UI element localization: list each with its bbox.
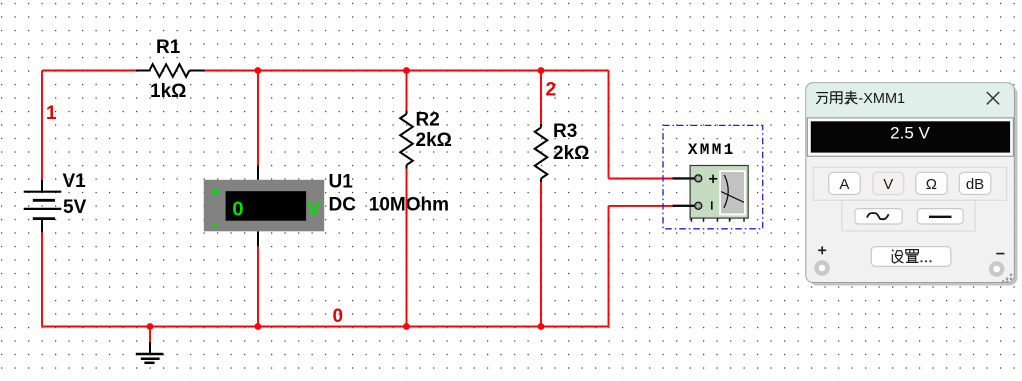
svg-text:A: A — [839, 176, 849, 193]
svg-text:2kΩ: 2kΩ — [416, 130, 452, 151]
svg-text:2.5 V: 2.5 V — [890, 123, 930, 142]
svg-text:2: 2 — [546, 80, 557, 101]
svg-text:V: V — [307, 197, 321, 220]
svg-text:5V: 5V — [63, 197, 87, 218]
svg-text:DC: DC — [329, 194, 357, 215]
svg-text:1kΩ: 1kΩ — [150, 81, 186, 102]
svg-text:V1: V1 — [63, 171, 87, 192]
svg-text:2kΩ: 2kΩ — [553, 143, 589, 164]
svg-text:dB: dB — [966, 176, 984, 193]
svg-text:10MOhm: 10MOhm — [369, 194, 449, 215]
svg-text:R1: R1 — [156, 37, 181, 58]
svg-text:0: 0 — [232, 197, 243, 220]
svg-text:V: V — [883, 176, 893, 193]
svg-text:0: 0 — [333, 306, 344, 327]
svg-text:R3: R3 — [553, 121, 577, 142]
svg-text:R2: R2 — [416, 110, 440, 131]
svg-text:-XMM1: -XMM1 — [858, 91, 905, 107]
svg-text:1: 1 — [46, 103, 57, 124]
svg-text:U1: U1 — [329, 171, 354, 192]
svg-text:Ω: Ω — [926, 176, 937, 193]
svg-text:XMM1: XMM1 — [688, 141, 736, 159]
